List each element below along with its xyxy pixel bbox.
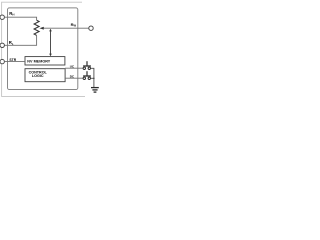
svg-text:RH: RH xyxy=(9,11,14,17)
CONTROL LOGIC box xyxy=(25,69,65,82)
wiper position line (double arrow) to NV memory xyxy=(50,30,52,55)
wire UC button to ground rail xyxy=(91,68,94,87)
svg-text:LOGIC: LOGIC xyxy=(32,74,44,78)
wiper arrow xyxy=(39,27,43,30)
svg-text:RL: RL xyxy=(9,40,14,46)
pushbutton DC contacts xyxy=(83,77,85,79)
terminal RW xyxy=(89,26,93,30)
NV MEMORY box xyxy=(25,57,65,65)
wire potentiometer bottom to RL xyxy=(4,35,36,45)
arrowhead up at wiper wire xyxy=(49,29,52,32)
terminal RL xyxy=(0,43,4,47)
wire DC pin xyxy=(65,77,83,79)
figure frame (partial, light) xyxy=(2,2,85,96)
svg-text:NV MEMORY: NV MEMORY xyxy=(27,59,51,63)
terminal RH xyxy=(0,15,4,19)
resistor (potentiometer element) xyxy=(34,20,39,35)
wire RH to potentiometer top xyxy=(4,17,36,20)
pushbutton DC actuator bar xyxy=(83,75,91,77)
wire STR to NV memory xyxy=(4,61,25,63)
junction dot xyxy=(93,78,94,79)
wire UC pin xyxy=(65,67,83,69)
pushbutton UC actuator bar xyxy=(83,65,91,67)
wire DC button to ground rail xyxy=(91,77,94,79)
arrowhead down at NV memory xyxy=(49,54,52,57)
svg-text:RW: RW xyxy=(71,22,77,28)
pushbutton UC stem xyxy=(86,61,88,65)
svg-text:DC: DC xyxy=(70,75,75,79)
svg-text:UC: UC xyxy=(70,65,75,69)
svg-text:STR: STR xyxy=(9,58,16,62)
IC outline box xyxy=(8,8,78,90)
ground xyxy=(91,87,99,89)
wire wiper to RW terminal xyxy=(44,27,89,29)
pushbutton UC contacts xyxy=(83,67,85,69)
pushbutton DC stem xyxy=(86,71,88,75)
terminal STR xyxy=(0,59,4,63)
